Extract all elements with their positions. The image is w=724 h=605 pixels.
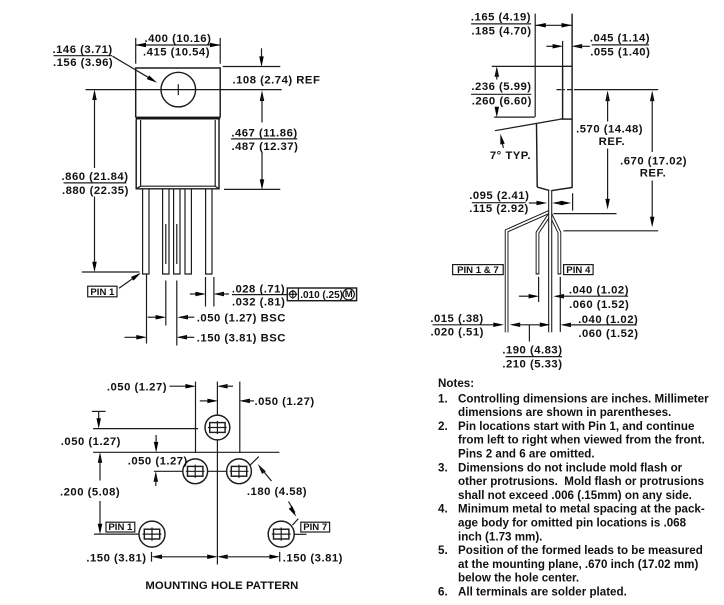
body corner bevels	[136, 186, 140, 189]
dimension lower .040/.060	[560, 323, 571, 328]
dimension .670 REF	[650, 91, 655, 102]
extension line pin4 center	[176, 224, 178, 264]
lead bend plane line	[554, 213, 617, 215]
dimension .860/.880	[92, 89, 97, 100]
svg-text:.015 (.38): .015 (.38)	[430, 313, 483, 325]
dimension .050 left rows	[92, 410, 106, 412]
lead pin7	[206, 189, 212, 274]
dimension .045/.055	[562, 41, 564, 66]
dimension .150 left	[151, 552, 153, 562]
dimension .400/.415 line with arrows	[136, 44, 221, 46]
svg-text:.055 (1.40): .055 (1.40)	[590, 46, 650, 58]
body sloped top edge 7deg	[495, 119, 560, 130]
formed lead pins 1 and 7	[507, 212, 551, 333]
extension line body back face	[572, 193, 574, 210]
svg-text:.060 (1.52): .060 (1.52)	[578, 328, 638, 340]
dimension .236/.260 extension lines	[492, 65, 563, 67]
svg-text:at the mounting plane, .670 in: at the mounting plane, .670 inch (17.02 …	[458, 558, 698, 571]
svg-text:6.: 6.	[438, 586, 448, 599]
hole pin5 middle-right	[227, 459, 252, 484]
lead pin1	[143, 189, 149, 274]
svg-text:.670 (17.02): .670 (17.02)	[620, 155, 687, 167]
svg-text:3.: 3.	[438, 461, 448, 474]
straight center lead	[548, 191, 552, 332]
dimension .150 BSC	[125, 336, 143, 338]
svg-text:1.: 1.	[438, 392, 448, 405]
svg-text:.040 (1.02): .040 (1.02)	[578, 314, 638, 326]
svg-text:.487 (12.37): .487 (12.37)	[231, 141, 298, 153]
formed lead pins 3 and 5	[538, 214, 551, 274]
svg-text:.156 (3.96): .156 (3.96)	[53, 57, 113, 69]
dimension .200	[98, 452, 103, 463]
dimension .570 REF	[605, 91, 610, 102]
dimension .236/.260	[495, 66, 500, 77]
svg-text:7° TYP.: 7° TYP.	[490, 150, 531, 162]
PIN 1 & 7 label	[453, 265, 504, 275]
hole center cross	[177, 84, 179, 95]
body inner bevel lines	[141, 120, 216, 186]
svg-text:.236 (5.99): .236 (5.99)	[471, 81, 531, 93]
svg-text:PIN 4: PIN 4	[566, 265, 591, 276]
dimension .165/.185	[535, 24, 572, 26]
svg-text:.146 (3.71): .146 (3.71)	[53, 44, 113, 56]
pin row extension right	[294, 533, 306, 535]
extension line pin3 center	[165, 224, 167, 264]
svg-text:.020 (.51): .020 (.51)	[431, 326, 484, 338]
svg-text:Pins 2 and 6 are omitted.: Pins 2 and 6 are omitted.	[458, 448, 595, 461]
svg-text:Dimensions do not include mold: Dimensions do not include mold flash or	[458, 461, 683, 474]
svg-text:.050 (1.27): .050 (1.27)	[107, 381, 167, 393]
svg-text:.095 (2.41): .095 (2.41)	[469, 190, 529, 202]
dimension .028/.032 lead width arrows	[190, 293, 201, 295]
svg-text:.050 (1.27): .050 (1.27)	[61, 436, 121, 448]
reference line L1	[93, 451, 279, 453]
svg-text:inch (1.73 mm).: inch (1.73 mm).	[458, 530, 542, 543]
hole pin7 bottom-right	[268, 521, 294, 547]
lead pin4	[174, 189, 180, 274]
svg-text:.060 (1.52): .060 (1.52)	[569, 299, 629, 311]
svg-text:.467 (11.86): .467 (11.86)	[231, 127, 297, 139]
svg-text:.200 (5.08): .200 (5.08)	[60, 486, 120, 498]
top hole center extension	[93, 428, 198, 430]
hole centerline side view	[557, 89, 576, 91]
PIN 1 label pattern	[106, 522, 135, 532]
svg-text:.150 (3.81): .150 (3.81)	[86, 552, 146, 564]
tab side profile	[563, 66, 573, 119]
pin row extension left	[94, 533, 139, 535]
extension line pins 3/5	[538, 277, 540, 302]
svg-text:.050 (1.27): .050 (1.27)	[255, 396, 315, 408]
dimension .050 top-right columns	[200, 400, 213, 402]
svg-text:.260 (6.60): .260 (6.60)	[472, 96, 532, 108]
svg-text:Notes:: Notes:	[438, 377, 474, 390]
middle row line left	[154, 470, 183, 472]
svg-text:4.: 4.	[438, 503, 448, 516]
extension lines pin7 width	[205, 277, 207, 307]
svg-text:.180 (4.58): .180 (4.58)	[247, 486, 307, 498]
lead pin3	[163, 189, 169, 274]
PIN 7 label pattern	[293, 519, 299, 526]
svg-text:.108 (2.74) REF: .108 (2.74) REF	[233, 74, 321, 86]
svg-text:.150 (3.81): .150 (3.81)	[283, 552, 343, 564]
hole pin3 middle-left	[183, 459, 208, 484]
mounting hole circle	[161, 72, 196, 107]
svg-text:M: M	[345, 289, 353, 300]
feature control frame box	[287, 288, 356, 301]
svg-text:.040 (1.02): .040 (1.02)	[569, 285, 629, 297]
svg-text:other protrusions. Mold flash: other protrusions. Mold flash or protrus…	[458, 475, 704, 488]
.165 left extension / body left extension	[534, 14, 536, 117]
svg-text:PIN 1: PIN 1	[108, 522, 133, 533]
svg-text:.050 (1.27): .050 (1.27)	[128, 455, 188, 467]
svg-text:Position of the formed leads t: Position of the formed leads to be measu…	[458, 544, 703, 557]
svg-text:.050 (1.27) BSC: .050 (1.27) BSC	[197, 312, 286, 324]
dimension .108 REF	[261, 48, 263, 61]
svg-text:PIN 1: PIN 1	[90, 287, 115, 298]
svg-text:PIN 1 & 7: PIN 1 & 7	[457, 265, 499, 276]
position symbol	[290, 291, 297, 298]
7 deg callout arrow	[501, 139, 503, 148]
dimension .050 BSC	[148, 316, 162, 318]
svg-text:REF.: REF.	[599, 136, 625, 148]
formed lead pin 4	[550, 214, 559, 274]
svg-text:.028 (.71): .028 (.71)	[232, 283, 285, 295]
svg-text:Pin locations start with Pin 1: Pin locations start with Pin 1, and cont…	[458, 420, 695, 433]
svg-text:.570 (14.48): .570 (14.48)	[576, 124, 643, 136]
package tab outline	[136, 68, 221, 118]
lead pin5	[185, 189, 191, 274]
tab/body right edge + .165 right extension	[571, 14, 573, 188]
hole pin1 bottom-left	[139, 521, 165, 547]
dimension .467/.487	[260, 90, 265, 101]
svg-text:shall not exceed .006 (.15mm): shall not exceed .006 (.15mm) on any sid…	[458, 489, 692, 502]
svg-text:PIN 7: PIN 7	[303, 522, 327, 533]
hole pin4 top	[205, 415, 230, 440]
leader to hole	[113, 56, 154, 80]
body top right edge	[560, 118, 573, 120]
svg-text:Controlling dimensions are inc: Controlling dimensions are inches. Milli…	[458, 392, 709, 405]
svg-text:.210 (5.33): .210 (5.33)	[502, 359, 562, 371]
svg-text:MOUNTING HOLE PATTERN: MOUNTING HOLE PATTERN	[145, 580, 298, 592]
extension line V1	[195, 382, 197, 453]
dimension .400/.415 extension lines	[135, 38, 137, 64]
svg-text:.860 (21.84): .860 (21.84)	[62, 171, 129, 183]
middle row line between holes	[208, 470, 227, 472]
dimension .180 diagonal	[250, 457, 259, 466]
tab bottom thick band	[136, 117, 221, 120]
svg-text:age body for omitted pin locat: age body for omitted pin locations is .0…	[458, 517, 687, 530]
svg-text:.115 (2.92): .115 (2.92)	[469, 203, 529, 215]
lead tip extension line	[82, 271, 140, 273]
extension line pin 4	[559, 277, 561, 332]
PIN 4 label	[564, 265, 594, 275]
svg-text:.400 (10.16): .400 (10.16)	[144, 33, 211, 45]
svg-text:below the hole center.: below the hole center.	[458, 572, 579, 585]
svg-text:.415 (10.54): .415 (10.54)	[143, 46, 210, 58]
svg-text:REF.: REF.	[640, 168, 666, 180]
svg-text:.010 (.25): .010 (.25)	[300, 290, 343, 301]
svg-text:All terminals are solder plate: All terminals are solder plated.	[458, 586, 627, 599]
extension line V3	[239, 382, 241, 453]
svg-text:2.: 2.	[438, 420, 448, 433]
dimension .150 right	[217, 555, 228, 560]
dimension .050 inner rows	[155, 435, 157, 448]
svg-text:dimensions are shown in parent: dimensions are shown in parentheses.	[458, 406, 671, 419]
dimension .190/.210	[510, 323, 521, 328]
body outline outer	[136, 120, 219, 189]
PIN 1 label front view	[88, 286, 117, 297]
svg-text:5.: 5.	[438, 544, 448, 557]
svg-text:from left to right when viewed: from left to right when viewed from the …	[458, 434, 705, 447]
body bottom edges	[537, 187, 572, 191]
dimension upper .040/.060	[519, 295, 535, 297]
svg-text:.190 (4.83): .190 (4.83)	[502, 345, 562, 357]
svg-text:.880 (22.35): .880 (22.35)	[62, 185, 129, 197]
svg-text:.185 (4.70): .185 (4.70)	[471, 25, 531, 37]
body left edge	[536, 123, 539, 187]
circled M modifier	[343, 289, 354, 300]
node centerline through mounting hole	[86, 89, 282, 91]
extension line pin1 center	[146, 275, 148, 344]
svg-text:.032 (.81): .032 (.81)	[232, 296, 285, 308]
svg-text:.045 (1.14): .045 (1.14)	[590, 33, 650, 45]
svg-text:.150 (3.81) BSC: .150 (3.81) BSC	[197, 332, 286, 344]
svg-text:Minimum metal to metal spacing: Minimum metal to metal spacing at the pa…	[458, 503, 705, 516]
mounting plane line	[564, 230, 659, 232]
vertical centerline	[216, 382, 218, 415]
extension line .190 center	[528, 325, 530, 342]
lead end caps	[536, 273, 540, 275]
svg-text:.165 (4.19): .165 (4.19)	[471, 11, 531, 23]
